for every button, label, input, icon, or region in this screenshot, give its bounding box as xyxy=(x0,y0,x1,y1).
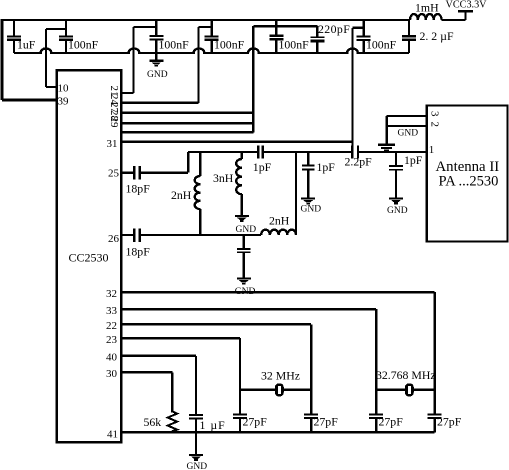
wire pin26 net xyxy=(121,234,261,236)
capacitor C2 plates xyxy=(59,35,73,37)
capacitor C15 plates xyxy=(389,165,403,167)
svg-text:VCC3.3V: VCC3.3V xyxy=(446,0,488,10)
svg-text:22: 22 xyxy=(106,320,117,332)
wire pin29 net xyxy=(121,26,317,132)
inductor L2 2nH xyxy=(195,152,201,235)
capacitor C13 1pF shunt xyxy=(307,152,309,197)
wire antenna pins 2,3 to ground xyxy=(387,116,427,144)
svg-text:40: 40 xyxy=(106,352,118,364)
svg-text:220pF: 220pF xyxy=(318,22,350,36)
svg-text:41: 41 xyxy=(107,429,118,441)
capacitor C3 100nF xyxy=(155,20,157,60)
capacitor C12 1pF shunt xyxy=(243,235,245,277)
svg-text:31: 31 xyxy=(107,138,118,150)
svg-text:1mH: 1mH xyxy=(415,0,439,14)
wire pin40 net xyxy=(121,356,196,414)
wire VCC xyxy=(442,11,473,20)
capacitor C5 100nF xyxy=(275,20,277,53)
capacitor C17 27pF xyxy=(239,419,241,433)
crystal Y1 32MHz body xyxy=(275,383,284,396)
svg-text:CC2530: CC2530 xyxy=(69,250,109,264)
capacitor C3 plates xyxy=(149,35,163,37)
wire pin21 net xyxy=(121,27,156,93)
wire pin22 net xyxy=(121,324,311,413)
capacitor C16 plates xyxy=(189,414,203,416)
svg-text:2nH: 2nH xyxy=(171,188,192,202)
svg-text:1pF: 1pF xyxy=(404,153,423,167)
svg-text:GND: GND xyxy=(398,129,419,139)
capacitor C6 220pF xyxy=(316,26,318,53)
ic U1 CC2530 xyxy=(57,70,122,442)
wire pin30 net xyxy=(121,372,172,412)
svg-text:100nF: 100nF xyxy=(159,38,190,52)
antenna module U2 xyxy=(427,105,508,241)
svg-text:33: 33 xyxy=(106,305,118,317)
VCC top rail xyxy=(2,19,410,21)
svg-text:Antenna II: Antenna II xyxy=(436,159,500,175)
svg-text:3nH: 3nH xyxy=(213,171,234,185)
wire pin23 net xyxy=(121,338,240,413)
capacitor C19 plates xyxy=(369,414,383,416)
inductor L3 3nH xyxy=(236,152,242,215)
svg-text:GND: GND xyxy=(147,70,168,80)
crystal Y1 32MHz wire xyxy=(240,388,311,390)
svg-text:2: 2 xyxy=(429,122,441,128)
capacitor C6 plates xyxy=(310,36,324,38)
svg-text:GND: GND xyxy=(301,204,322,214)
capacitor C10 1pF series plates xyxy=(258,146,263,159)
svg-text:GND: GND xyxy=(387,206,408,216)
svg-text:100nF: 100nF xyxy=(214,38,245,52)
svg-text:2nH: 2nH xyxy=(269,214,290,228)
capacitor C2 100nF xyxy=(65,20,67,53)
svg-text:56k: 56k xyxy=(144,415,162,429)
capacitor C8 2.2uF xyxy=(408,20,410,53)
svg-text:100nF: 100nF xyxy=(68,38,99,52)
resistor R1 56k xyxy=(168,412,177,433)
svg-text:30: 30 xyxy=(106,368,118,380)
wire pin39 net left drop xyxy=(2,19,57,100)
wire L4 riser xyxy=(295,152,297,235)
wire pin32 net xyxy=(121,292,435,413)
svg-text:1: 1 xyxy=(429,144,435,156)
crystal Y2 32.768MHz wire xyxy=(376,388,435,390)
crystal Y2 32.768MHz body xyxy=(405,383,414,396)
wire RF rail xyxy=(188,151,426,153)
inductor L5 1mH xyxy=(410,14,442,20)
inductor L4 2nH horizontal xyxy=(261,230,296,235)
svg-text:23: 23 xyxy=(106,334,118,346)
capacitor C9 18pF plates xyxy=(134,166,140,180)
svg-text:39: 39 xyxy=(58,96,70,108)
svg-text:10: 10 xyxy=(58,83,70,95)
capacitor C20 27pF xyxy=(434,419,436,433)
svg-text:1pF: 1pF xyxy=(253,160,272,174)
ground C16 xyxy=(189,454,203,461)
svg-text:2. 2 µF: 2. 2 µF xyxy=(420,29,454,43)
svg-text:32 MHz: 32 MHz xyxy=(261,369,300,383)
capacitor C7 100nF net xyxy=(353,20,364,146)
svg-text:1pF: 1pF xyxy=(317,160,336,174)
svg-text:29: 29 xyxy=(108,117,120,129)
svg-text:26: 26 xyxy=(108,233,120,245)
capacitor C17 plates xyxy=(233,414,247,416)
svg-text:PA ...2530: PA ...2530 xyxy=(439,174,499,190)
capacitor C18 27pF xyxy=(310,419,312,433)
ground C13 xyxy=(301,197,315,204)
svg-text:3: 3 xyxy=(429,111,441,117)
svg-text:25: 25 xyxy=(108,167,120,179)
svg-text:GND: GND xyxy=(235,287,256,297)
capacitor C12 plates xyxy=(237,248,251,250)
svg-text:27pF: 27pF xyxy=(437,415,462,429)
capacitor C20 plates xyxy=(428,414,442,416)
wire pin31 rail xyxy=(121,140,353,143)
capacitor C1 1uF xyxy=(13,20,15,53)
capacitor C19 27pF xyxy=(375,419,377,433)
svg-text:100nF: 100nF xyxy=(279,38,310,52)
svg-text:GND: GND xyxy=(187,462,208,470)
svg-text:27pF: 27pF xyxy=(379,415,404,429)
capacitor C5 plates xyxy=(269,35,283,37)
svg-text:1 µF: 1 µF xyxy=(200,418,226,432)
wire pin33 net xyxy=(121,309,376,413)
svg-text:GND: GND xyxy=(236,225,257,235)
ground L3 xyxy=(235,215,249,222)
capacitor C8 plates xyxy=(402,35,416,37)
capacitor C4 plates xyxy=(205,35,219,37)
capacitor C7 plates xyxy=(357,35,371,37)
wire pin27 net xyxy=(121,112,253,114)
svg-text:27pF: 27pF xyxy=(314,415,339,429)
wire pin10 net xyxy=(46,29,66,87)
ground rail bottom xyxy=(121,431,435,433)
capacitor C11 18pF plates xyxy=(134,228,140,242)
svg-text:18pF: 18pF xyxy=(126,245,151,259)
svg-text:32.768 MHz: 32.768 MHz xyxy=(376,368,436,382)
wire pin28 net xyxy=(121,122,253,124)
wire pin24 net xyxy=(121,27,212,103)
capacitor C13 plates xyxy=(302,165,314,167)
capacitor C15 1pF shunt xyxy=(395,152,397,197)
svg-text:32: 32 xyxy=(106,288,117,300)
capacitor C16 1uF xyxy=(195,419,197,453)
svg-text:1uF: 1uF xyxy=(17,37,36,51)
svg-text:100nF: 100nF xyxy=(366,38,397,52)
wire pin25 net xyxy=(121,152,188,173)
svg-text:2.2pF: 2.2pF xyxy=(345,155,373,169)
capacitor C1 plates xyxy=(7,35,21,37)
svg-text:18pF: 18pF xyxy=(126,182,151,196)
ground rail with hops xyxy=(14,48,409,53)
capacitor C18 plates xyxy=(304,414,318,416)
ground C3 xyxy=(149,60,163,67)
capacitor C14 2.2pF series plates xyxy=(352,146,358,159)
ground antenna xyxy=(378,144,395,152)
ground C12 xyxy=(237,277,251,284)
capacitor C4 100nF xyxy=(211,20,213,53)
ground C15 xyxy=(389,197,403,204)
svg-text:27pF: 27pF xyxy=(243,415,268,429)
